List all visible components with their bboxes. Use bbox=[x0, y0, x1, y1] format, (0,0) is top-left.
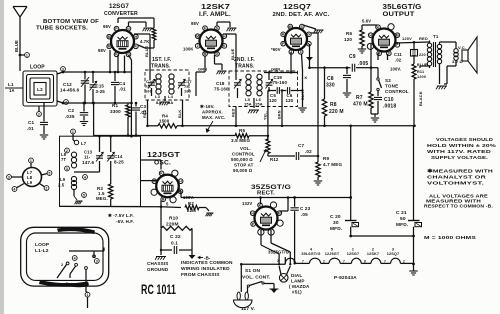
svg-text:2ND. DET. AF. AVC.: 2ND. DET. AF. AVC. bbox=[273, 12, 331, 18]
svg-text:T1: T1 bbox=[433, 34, 439, 39]
ground BLK lead bbox=[298, 108, 306, 112]
svg-text:OUTPUT: OUTPUT bbox=[383, 12, 415, 18]
svg-text:H: H bbox=[251, 211, 254, 215]
wire B- bottom bus bbox=[349, 235, 415, 238]
wire grid line A bbox=[57, 72, 132, 74]
wire U4 bottom stubs bbox=[378, 54, 388, 61]
svg-text:C9: C9 bbox=[349, 54, 356, 60]
svg-text:3: 3 bbox=[300, 50, 302, 54]
svg-text:2: 2 bbox=[197, 44, 199, 48]
svg-text:R8: R8 bbox=[330, 102, 337, 108]
label BLACK bbox=[418, 91, 423, 106]
svg-text:11-: 11- bbox=[84, 155, 91, 160]
svg-text:RECT.: RECT. bbox=[257, 191, 275, 197]
svg-text:8-25: 8-25 bbox=[114, 160, 124, 165]
svg-text:M: M bbox=[289, 25, 292, 29]
svg-text:2.5: 2.5 bbox=[58, 183, 65, 188]
svg-text:*60V: *60V bbox=[271, 47, 281, 52]
inductor L4 bbox=[168, 74, 174, 99]
svg-text:2: 2 bbox=[277, 259, 279, 263]
svg-text:R5: R5 bbox=[239, 128, 245, 133]
svg-text:1ST. I.F.: 1ST. I.F. bbox=[152, 57, 172, 63]
svg-text:1A: 1A bbox=[9, 88, 15, 93]
label 98V U2 bbox=[191, 21, 199, 26]
wire AVC to R12 bbox=[249, 135, 268, 137]
svg-text:BLK: BLK bbox=[301, 92, 305, 100]
svg-text:LAMP: LAMP bbox=[291, 279, 305, 284]
svg-text:35L6GT/G: 35L6GT/G bbox=[301, 252, 320, 256]
tube U4 35L6 bbox=[367, 24, 399, 56]
svg-text:C8: C8 bbox=[327, 76, 334, 82]
ground T1 secondary bbox=[436, 86, 447, 89]
wire U6 side pin up bbox=[280, 196, 290, 211]
arrow to chassis R2 bbox=[199, 208, 214, 217]
svg-text:VOL. CONT.: VOL. CONT. bbox=[242, 275, 270, 281]
wire to ground right bbox=[412, 236, 415, 271]
svg-text:3: 3 bbox=[392, 248, 394, 252]
svg-text:5: 5 bbox=[331, 248, 333, 252]
svg-text:3: 3 bbox=[293, 259, 295, 263]
svg-text:8: 8 bbox=[364, 260, 366, 264]
svg-text:.05: .05 bbox=[301, 212, 308, 217]
wire osc grid up bbox=[130, 103, 133, 138]
svg-text:DIAL: DIAL bbox=[291, 273, 302, 278]
svg-text:( MAZDA: ( MAZDA bbox=[289, 284, 310, 289]
svg-text:120V: 120V bbox=[402, 36, 412, 41]
wire RED lead 1st IF bbox=[143, 100, 149, 127]
svg-text:M: M bbox=[108, 35, 111, 39]
svg-text:S1 ON: S1 ON bbox=[245, 268, 261, 274]
svg-text:120: 120 bbox=[344, 37, 352, 42]
svg-text:C14: C14 bbox=[114, 154, 123, 159]
tube U2 12SK7 label bbox=[199, 4, 231, 18]
label 98V top bbox=[103, 24, 111, 29]
wire BRN lead bbox=[278, 89, 284, 127]
svg-text:L4: L4 bbox=[168, 94, 174, 99]
svg-text:RED: RED bbox=[419, 36, 428, 41]
note bottom view of tube sockets bbox=[36, 19, 99, 32]
svg-text:C10: C10 bbox=[384, 97, 394, 103]
svg-text:12SG7: 12SG7 bbox=[109, 3, 129, 10]
svg-text:H: H bbox=[282, 33, 285, 37]
svg-text:1: 1 bbox=[352, 248, 354, 252]
svg-text:C 21: C 21 bbox=[396, 210, 407, 216]
label 98V left bbox=[98, 48, 106, 53]
wire U1 pins down bbox=[109, 50, 133, 104]
svg-text:L1-L2: L1-L2 bbox=[35, 248, 49, 254]
wire S2 top bbox=[371, 67, 401, 73]
svg-text:M: M bbox=[278, 211, 281, 215]
svg-text:3: 3 bbox=[96, 259, 98, 263]
svg-text:TRANS.: TRANS. bbox=[151, 64, 171, 70]
tube U3 12SQ7 bbox=[281, 24, 311, 54]
svg-text:VOLTOHMYST.: VOLTOHMYST. bbox=[427, 181, 484, 187]
1st IF transformer box bbox=[145, 57, 189, 100]
wire C7 line bbox=[268, 155, 295, 157]
wire plate line bbox=[310, 66, 351, 69]
speaker voice coil bbox=[444, 42, 466, 84]
heater pin numbers bbox=[302, 260, 405, 264]
svg-text:2: 2 bbox=[372, 248, 374, 252]
resistor R11 1200 bbox=[412, 62, 426, 127]
svg-text:CONVERTER: CONVERTER bbox=[104, 11, 138, 17]
capacitor C7 .02 bbox=[296, 143, 318, 160]
oscillator coil box bbox=[60, 136, 141, 206]
svg-text:3.2: 3.2 bbox=[452, 59, 459, 64]
svg-text:.005: .005 bbox=[358, 61, 368, 67]
svg-text:GROUND: GROUND bbox=[147, 267, 169, 272]
svg-text:H: H bbox=[179, 179, 182, 183]
svg-text:98V: 98V bbox=[103, 24, 111, 29]
svg-text:R7: R7 bbox=[356, 95, 363, 101]
svg-text:VOL.: VOL. bbox=[240, 146, 251, 151]
svg-text:R9: R9 bbox=[323, 156, 329, 161]
svg-text:0.1: 0.1 bbox=[171, 241, 178, 247]
resistor R8 220M bbox=[322, 68, 343, 127]
svg-text:100K: 100K bbox=[183, 47, 194, 52]
svg-text:75-160: 75-160 bbox=[273, 80, 288, 85]
switch S2 tone control bbox=[377, 72, 409, 94]
resistor R5 3.5 MEG bbox=[231, 128, 250, 143]
label 100K bbox=[183, 47, 194, 52]
svg-text:C 22: C 22 bbox=[170, 234, 181, 240]
svg-text:.01: .01 bbox=[119, 87, 126, 92]
svg-text:2: 2 bbox=[66, 149, 68, 153]
svg-text:TUBE SOCKETS.: TUBE SOCKETS. bbox=[36, 26, 88, 32]
svg-text:R1: R1 bbox=[112, 103, 118, 108]
node 2 osc bbox=[65, 148, 70, 153]
ground below R6 bbox=[358, 49, 366, 53]
wire blue U2 plate to 2nd IF bbox=[223, 34, 236, 74]
svg-text:C3: C3 bbox=[140, 104, 146, 109]
wire B- bus bbox=[60, 206, 182, 209]
svg-text:I.F. AMPL.: I.F. AMPL. bbox=[199, 12, 231, 18]
svg-text:V.C.: V.C. bbox=[458, 45, 466, 50]
inductor L5 bbox=[244, 74, 252, 106]
resistor R2 22M bbox=[185, 201, 199, 213]
svg-text:75-160: 75-160 bbox=[214, 87, 229, 92]
svg-text:5: 5 bbox=[83, 193, 85, 197]
transformer T1 primary bbox=[420, 41, 432, 69]
svg-text:1: 1 bbox=[30, 159, 32, 163]
wire U3 plate right bbox=[308, 44, 311, 69]
svg-text:WIRING INSULATED: WIRING INSULATED bbox=[181, 266, 230, 272]
svg-text:B: B bbox=[162, 198, 165, 202]
capacitor C12 (tuning) bbox=[60, 71, 89, 105]
svg-text:RC 1011: RC 1011 bbox=[141, 282, 176, 297]
tube U1 12SG7 bbox=[107, 26, 138, 56]
svg-text:2ND. I.F.: 2ND. I.F. bbox=[234, 57, 255, 63]
svg-text:120: 120 bbox=[269, 98, 277, 103]
svg-text:12J5GT: 12J5GT bbox=[325, 252, 340, 256]
svg-text:2: 2 bbox=[45, 186, 47, 190]
svg-text:BOTTOM VIEW OF: BOTTOM VIEW OF bbox=[43, 19, 99, 25]
ground 1st IF bbox=[160, 96, 170, 105]
wire blue U1 plate to 1st IF bbox=[134, 34, 150, 74]
wire from line B to AVC line bbox=[92, 102, 95, 136]
capacitor C16 trimmer bbox=[145, 74, 155, 96]
note dial lamp bbox=[289, 273, 310, 295]
svg-text:C4: C4 bbox=[119, 81, 125, 86]
wire U3 grid down to AF line bbox=[311, 33, 320, 157]
wire YEL lead bbox=[264, 91, 270, 141]
svg-text:C2: C2 bbox=[68, 108, 74, 113]
ground below C2 bbox=[80, 122, 88, 126]
svg-text:3.5 MEG: 3.5 MEG bbox=[231, 138, 250, 143]
label 35Z5GT/G heater bbox=[268, 250, 289, 255]
svg-text:4: 4 bbox=[13, 187, 15, 191]
inductor L6 bbox=[255, 74, 263, 106]
svg-text:L9: L9 bbox=[27, 180, 33, 185]
svg-text:L3: L3 bbox=[155, 94, 161, 99]
svg-text:MFD.: MFD. bbox=[330, 226, 342, 232]
tube U3 12SQ7 label bbox=[273, 4, 331, 18]
svg-text:-B-: -B- bbox=[204, 256, 211, 261]
capacitor C9 .005 bbox=[349, 54, 372, 72]
resistor R1 3300 bbox=[110, 103, 130, 137]
svg-text:12SQ7: 12SQ7 bbox=[283, 4, 311, 11]
svg-text:220: 220 bbox=[419, 53, 426, 57]
svg-text:G: G bbox=[216, 52, 219, 56]
svg-text:✱MEASURED WITH: ✱MEASURED WITH bbox=[427, 169, 494, 175]
svg-text:160: 160 bbox=[145, 89, 153, 94]
capacitor C19 trimmer bbox=[264, 67, 298, 92]
svg-text:BLK: BLK bbox=[178, 110, 182, 118]
note all voltages bbox=[424, 194, 493, 209]
tube U5 12J5 bbox=[151, 170, 183, 203]
svg-text:220M: 220M bbox=[166, 222, 179, 228]
wire grn 1st IF to U2 grid bbox=[196, 56, 207, 97]
capacitor C20 30 MFD bbox=[330, 214, 359, 236]
node 4 bbox=[62, 100, 69, 105]
svg-text:HOLD WITHIN ± 20%: HOLD WITHIN ± 20% bbox=[427, 143, 497, 149]
svg-text:4: 4 bbox=[84, 175, 86, 179]
ground below R7 C10 bbox=[371, 114, 379, 122]
wire 35Z5 to heater bbox=[261, 230, 291, 265]
wire converter screen feed bbox=[118, 18, 156, 48]
svg-text:M = 1000 OHMS: M = 1000 OHMS bbox=[424, 235, 477, 241]
svg-text:R12: R12 bbox=[270, 157, 279, 162]
svg-text:98V: 98V bbox=[191, 21, 199, 26]
svg-text:4.7 MEG: 4.7 MEG bbox=[323, 162, 342, 167]
resistor R7 470M bbox=[353, 68, 373, 114]
note voltages bbox=[427, 137, 497, 161]
wire U4 grid bbox=[370, 44, 372, 68]
svg-text:STOP AT: STOP AT bbox=[234, 163, 254, 168]
svg-text:APPROX.: APPROX. bbox=[202, 110, 223, 115]
svg-text:BRN: BRN bbox=[278, 110, 282, 119]
wire osc cathode stub bbox=[141, 160, 162, 181]
svg-text:INDICATES COMMON: INDICATES COMMON bbox=[181, 260, 233, 266]
svg-text:.035: .035 bbox=[65, 114, 75, 119]
svg-text:K: K bbox=[377, 25, 380, 29]
svg-text:P-92043A: P-92043A bbox=[334, 275, 357, 281]
svg-text:15A: 15A bbox=[244, 102, 252, 107]
svg-text:R11: R11 bbox=[417, 70, 424, 74]
svg-text:C 23: C 23 bbox=[300, 206, 311, 211]
svg-text:2: 2 bbox=[403, 260, 405, 264]
transformer T1 secondary bbox=[437, 42, 456, 84]
inductor L9 bbox=[58, 176, 77, 189]
ground top of U3 bbox=[303, 25, 324, 33]
svg-text:TRANS.: TRANS. bbox=[235, 64, 255, 70]
svg-text:120: 120 bbox=[286, 98, 294, 103]
speaker bbox=[462, 37, 477, 73]
svg-text:7T: 7T bbox=[61, 157, 66, 162]
label 8A 8A bbox=[156, 100, 173, 105]
svg-text:3-25: 3-25 bbox=[96, 89, 106, 94]
svg-text:.01: .01 bbox=[27, 126, 34, 131]
svg-text:132V: 132V bbox=[242, 201, 252, 206]
svg-text:1: 1 bbox=[72, 130, 74, 134]
svg-text:L9: L9 bbox=[60, 177, 66, 182]
label BLUE T1 bbox=[417, 63, 428, 67]
model RC 1011 bbox=[141, 282, 176, 297]
note indicates common bbox=[181, 260, 233, 278]
wire AVC bus bbox=[94, 135, 235, 137]
svg-text:K: K bbox=[223, 44, 226, 48]
svg-text:220 M: 220 M bbox=[329, 109, 344, 115]
svg-text:OSC.: OSC. bbox=[154, 161, 171, 167]
resistor R10 220M bbox=[161, 207, 192, 231]
svg-text:BLUE: BLUE bbox=[144, 45, 149, 57]
capacitor C5 120 bbox=[269, 87, 284, 103]
svg-text:117 V.: 117 V. bbox=[241, 306, 255, 312]
svg-text:4.7K: 4.7K bbox=[140, 39, 149, 44]
svg-text:CONTROL: CONTROL bbox=[385, 89, 409, 94]
2nd IF transformer box bbox=[229, 57, 298, 107]
wire RED lead 2nd IF bbox=[232, 107, 238, 128]
label 5.6V bbox=[362, 19, 371, 24]
svg-text:R2: R2 bbox=[188, 201, 194, 206]
wire osc plate bbox=[179, 191, 262, 199]
socket 5-pin drawing bbox=[7, 158, 52, 191]
wire B+ bus left bbox=[148, 125, 415, 127]
svg-text:1200: 1200 bbox=[417, 75, 426, 79]
transformer T1 core bbox=[434, 42, 436, 67]
resistor R9 4.7 MEG bbox=[316, 156, 343, 180]
node 1 osc bbox=[71, 129, 76, 140]
capacitor C4 bbox=[111, 71, 126, 105]
wire U4 plate to T1 bbox=[396, 34, 439, 44]
svg-text:MFD.: MFD. bbox=[396, 222, 408, 228]
note approx max avc bbox=[200, 104, 226, 132]
svg-text:C1: C1 bbox=[28, 120, 34, 125]
svg-text:3300: 3300 bbox=[110, 109, 121, 114]
svg-text:MEG.: MEG. bbox=[96, 196, 108, 201]
svg-text:CHANALYST OR: CHANALYST OR bbox=[427, 175, 487, 181]
label 60V U3 bbox=[271, 47, 281, 52]
svg-text:4: 4 bbox=[65, 100, 67, 104]
svg-text:VOLTAGES SHOULD: VOLTAGES SHOULD bbox=[436, 137, 493, 143]
svg-text:M: M bbox=[396, 33, 399, 37]
svg-text:CONTROL: CONTROL bbox=[232, 152, 255, 157]
ground right bottom bbox=[409, 271, 417, 275]
svg-text:LOOP: LOOP bbox=[30, 65, 45, 71]
svg-text:C12: C12 bbox=[63, 82, 72, 87]
resistor R3 1.5 MEG bbox=[96, 172, 113, 206]
svg-text:H: H bbox=[223, 34, 226, 38]
label P-92043A bbox=[334, 275, 357, 281]
svg-text:7: 7 bbox=[302, 260, 304, 264]
svg-text:160: 160 bbox=[184, 89, 192, 94]
capacitor C18 trimmer bbox=[214, 74, 241, 98]
svg-text:L1: L1 bbox=[8, 82, 14, 87]
svg-text:RED: RED bbox=[232, 108, 236, 117]
svg-text:22M: 22M bbox=[187, 208, 196, 213]
capacitor C1 bbox=[27, 103, 48, 134]
loop antenna L1-L2 bbox=[5, 65, 57, 107]
svg-text:7: 7 bbox=[343, 260, 345, 264]
capacitor C23 .05 bbox=[290, 196, 310, 264]
svg-text:CHASSIS: CHASSIS bbox=[147, 261, 168, 266]
resistor R6 120 bbox=[344, 25, 377, 49]
svg-text:5: 5 bbox=[48, 171, 50, 175]
svg-text:50: 50 bbox=[400, 216, 406, 222]
svg-text:M: M bbox=[196, 34, 199, 38]
svg-text:C7: C7 bbox=[298, 143, 304, 148]
capacitor C10 .0018 bbox=[374, 91, 396, 114]
svg-text:.02: .02 bbox=[305, 149, 312, 154]
ground top of U1 bbox=[129, 22, 153, 31]
wire U6 cathode up bbox=[260, 198, 262, 205]
svg-text:L7: L7 bbox=[81, 141, 87, 146]
node 3 osc bbox=[65, 166, 70, 171]
note vol control bbox=[231, 146, 255, 173]
svg-text:2: 2 bbox=[38, 112, 40, 116]
svg-text:C 20: C 20 bbox=[330, 214, 341, 220]
svg-text:K: K bbox=[134, 45, 137, 49]
svg-text:12SG7: 12SG7 bbox=[347, 252, 360, 256]
svg-text:K: K bbox=[305, 76, 308, 80]
wire U2 cathode down bbox=[215, 55, 227, 74]
dial lamp bbox=[279, 266, 290, 282]
note measured with bbox=[427, 169, 494, 187]
ground top of U2 bbox=[217, 22, 237, 31]
capacitor C17 trimmer bbox=[178, 79, 192, 96]
ground 2nd IF bbox=[248, 98, 259, 113]
ground below C1 bbox=[40, 135, 48, 139]
label 4.7K bbox=[140, 39, 149, 44]
tube U2 12SK7 bbox=[195, 26, 226, 56]
capacitor C15 (trimmer) bbox=[90, 71, 106, 105]
svg-text:✱ -7.5V L.F.: ✱ -7.5V L.F. bbox=[108, 213, 134, 218]
minus B terminal bbox=[189, 250, 211, 261]
svg-text:R6: R6 bbox=[346, 31, 352, 36]
svg-text:SUPPLY VOLTAGE.: SUPPLY VOLTAGE. bbox=[431, 155, 488, 161]
svg-text:12SK7: 12SK7 bbox=[367, 252, 379, 256]
svg-text:147.6: 147.6 bbox=[82, 160, 95, 165]
chassis ground symbol bbox=[155, 249, 166, 260]
svg-text:35L6GT/G: 35L6GT/G bbox=[383, 4, 422, 11]
svg-text:BLUE: BLUE bbox=[14, 40, 19, 52]
svg-text:R10: R10 bbox=[169, 216, 178, 222]
svg-text:B: B bbox=[204, 52, 207, 56]
wire filter vertical bbox=[349, 125, 352, 219]
svg-text:98V: 98V bbox=[98, 48, 106, 53]
svg-text:RESPECT TO COMMON -B.: RESPECT TO COMMON -B. bbox=[424, 204, 493, 209]
heater tap pin digits bbox=[277, 259, 295, 263]
label 5 pin bbox=[166, 202, 169, 207]
capacitor C22 0.1 bbox=[161, 228, 192, 254]
capacitor C2 bbox=[65, 102, 88, 121]
svg-text:✱-16V.: ✱-16V. bbox=[200, 104, 215, 109]
antenna bbox=[13, 7, 27, 72]
svg-text:.0018: .0018 bbox=[383, 104, 396, 110]
svg-text:C15: C15 bbox=[96, 84, 105, 89]
svg-text:500,000 Ω: 500,000 Ω bbox=[231, 157, 253, 162]
heater labels bbox=[301, 248, 399, 257]
